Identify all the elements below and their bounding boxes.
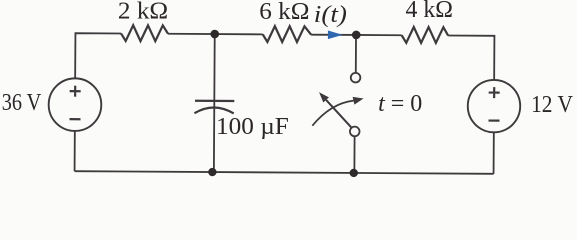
voltage source V2 12V circle xyxy=(468,80,521,133)
V1 minus sign xyxy=(69,118,80,120)
switch blade arrowhead xyxy=(319,92,329,102)
svg-text:t = 0: t = 0 xyxy=(378,91,422,117)
capacitor C 100uF top plate xyxy=(195,100,234,102)
svg-text:36 V: 36 V xyxy=(2,90,42,116)
V2 minus sign xyxy=(488,119,499,121)
wire: bottom rail up to 12V source bottom xyxy=(493,132,495,173)
switch motion arc arrowhead xyxy=(353,97,364,105)
voltage source V1 36V circle xyxy=(49,78,102,131)
current arrow i(t) blue head xyxy=(328,30,343,39)
svg-text:12 V: 12 V xyxy=(531,92,573,118)
switch blade line xyxy=(326,100,352,128)
wire: switch node to 4k xyxy=(356,34,401,36)
capacitor C 100uF curved bottom plate xyxy=(194,107,233,113)
resistor R 4kohm zigzag xyxy=(402,27,449,43)
svg-text:4 kΩ: 4 kΩ xyxy=(406,0,453,23)
switch motion arc arrow xyxy=(312,100,353,126)
V2 plus sign xyxy=(489,87,500,98)
wire: bottom switch terminal down to bottom rail xyxy=(353,136,355,173)
svg-text:6 kΩ: 6 kΩ xyxy=(259,0,309,25)
wire: 36V bottom to bottom rail xyxy=(74,131,76,171)
wire: 2k to cap node to 6k xyxy=(168,33,263,36)
resistor R 2kohm zigzag xyxy=(121,25,168,41)
wire top-left: top rail to 2k resistor, corner down to 36V source xyxy=(75,33,121,79)
junction node dot: cap top xyxy=(210,30,219,39)
svg-text:2 kΩ: 2 kΩ xyxy=(118,0,168,24)
wire: switch node down to top switch terminal xyxy=(355,35,357,73)
junction node dot: switch bottom rail xyxy=(350,169,358,177)
wire: 4k resistor to top-right corner down to 12V top xyxy=(448,36,495,80)
wire: 6k to switch node xyxy=(311,34,356,36)
wire bottom rail xyxy=(75,171,494,174)
wire: capacitor branch vertical xyxy=(213,34,216,172)
svg-text:i(t): i(t) xyxy=(314,2,347,28)
switch bottom terminal open circle xyxy=(350,127,360,137)
switch top terminal open circle xyxy=(351,73,361,83)
junction node dot: switch top rail xyxy=(352,31,361,40)
junction node dot: cap bottom rail xyxy=(208,168,216,176)
V1 plus sign xyxy=(70,86,81,97)
svg-text:100 µF: 100 µF xyxy=(216,114,289,140)
resistor R 6kohm zigzag xyxy=(263,26,311,42)
